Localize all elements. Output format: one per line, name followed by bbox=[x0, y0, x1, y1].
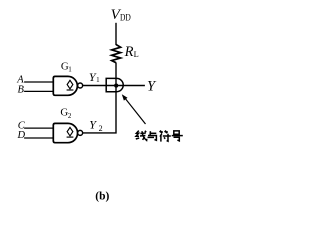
node junction dot bbox=[114, 84, 118, 88]
wire input B bbox=[24, 90, 53, 92]
wire input D bbox=[24, 137, 53, 139]
wire VDD to resistor bbox=[115, 23, 117, 45]
svg-text:B: B bbox=[18, 85, 25, 96]
wired-AND symbol at node Y bbox=[106, 78, 123, 91]
svg-text:2: 2 bbox=[99, 124, 103, 133]
label fu (symbol) char3 bbox=[160, 131, 171, 142]
svg-text:L: L bbox=[134, 50, 139, 59]
label hao (sign) char4 bbox=[172, 131, 183, 141]
arrow pointing to wired-AND symbol bbox=[124, 96, 146, 124]
output bubble G1 bbox=[78, 83, 83, 88]
label xian (wired) char1 bbox=[136, 131, 147, 141]
svg-text:R: R bbox=[124, 44, 134, 60]
NAND gate G2 bbox=[53, 123, 77, 142]
open-drain diamond G2 bbox=[67, 127, 73, 135]
svg-text:2: 2 bbox=[68, 112, 72, 120]
svg-text:DD: DD bbox=[120, 12, 131, 22]
svg-text:1: 1 bbox=[96, 76, 100, 84]
open-drain diamond G1 bbox=[67, 80, 73, 89]
label yu (with) char2 bbox=[148, 131, 157, 140]
wire node to Y bbox=[83, 85, 145, 87]
svg-text:1: 1 bbox=[68, 66, 72, 74]
resistor RL bbox=[112, 45, 121, 63]
wire input A bbox=[24, 81, 53, 83]
output bubble G2 bbox=[78, 130, 83, 135]
svg-text:(b): (b) bbox=[95, 190, 109, 202]
wire input C bbox=[24, 127, 53, 129]
NAND gate G1 bbox=[53, 76, 77, 95]
svg-text:D: D bbox=[17, 130, 26, 141]
wire resistor to node and down to G2 corner bbox=[83, 63, 116, 133]
